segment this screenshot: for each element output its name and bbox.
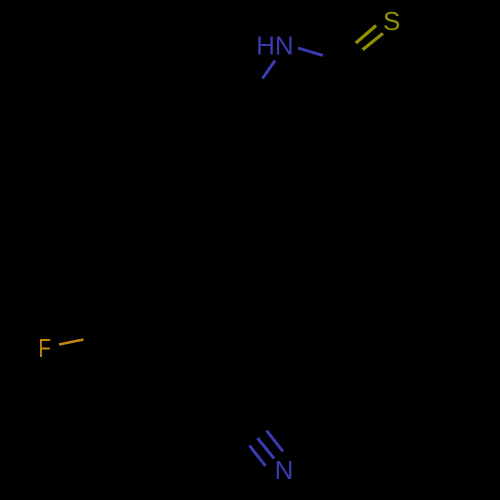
triple bond C#N middle line (N-side half, blue) <box>258 438 275 459</box>
triple bond C#N left line (N-side half, blue) <box>250 446 266 467</box>
double bond C2=S lower line (S-side half, olive) <box>363 33 383 49</box>
svg-text:N: N <box>275 455 294 485</box>
triple bond C#N right line (N-side half, blue) <box>267 431 284 452</box>
double bond C2=S upper line (S-side half, olive) <box>356 26 376 44</box>
atom label F (fluorine) <box>38 334 51 363</box>
bond N1-C2 (N-side half, blue) <box>298 48 323 56</box>
svg-text:F: F <box>38 334 51 363</box>
bond N1-C5 (N-side half, blue) <box>263 61 276 79</box>
bond F-C(aryl) (F-side half, gold) <box>59 340 84 345</box>
svg-text:HN: HN <box>256 31 294 61</box>
svg-text:S: S <box>383 6 400 36</box>
